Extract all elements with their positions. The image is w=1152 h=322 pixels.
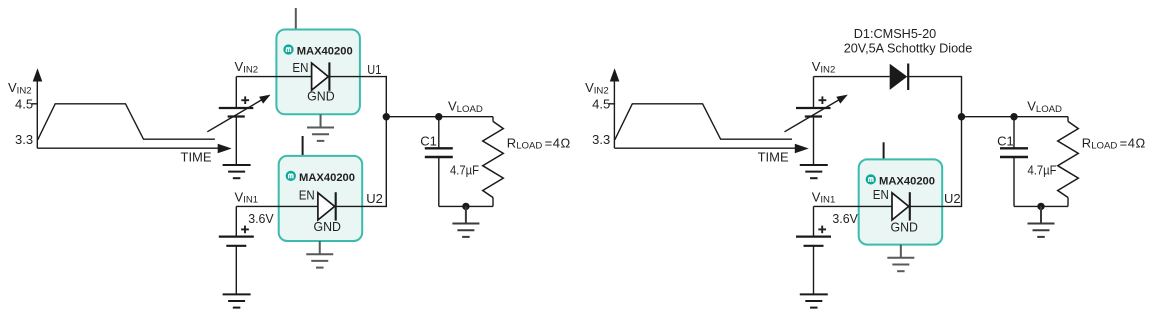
left graph 4.5 tick	[32, 103, 38, 105]
U2-left body	[279, 156, 363, 241]
U2-right through wire	[814, 205, 962, 207]
svg-text:MAX40200: MAX40200	[299, 172, 355, 184]
svg-text:TIME: TIME	[181, 149, 212, 164]
right graph waveform	[615, 104, 792, 140]
right VIN2 source battery plates	[796, 108, 831, 117]
left bus wire	[385, 76, 387, 207]
left VIN1 source plus sign	[241, 226, 249, 234]
left out bottom rail	[439, 205, 493, 207]
svg-text:U2: U2	[944, 191, 961, 206]
svg-text:U1: U1	[367, 62, 381, 77]
right VIN2 source variable arrow	[785, 95, 848, 132]
left VIN2 source ground	[223, 164, 251, 166]
svg-text:4.7µF: 4.7µF	[450, 162, 479, 177]
right VIN1 source battery plates	[796, 237, 831, 246]
right graph y-axis	[610, 68, 620, 148]
svg-text:C1: C1	[420, 134, 437, 149]
right VIN2 source wire top	[813, 77, 815, 108]
svg-text:3.6V: 3.6V	[832, 211, 858, 226]
left graph y-axis	[33, 68, 43, 148]
right graph x-axis	[614, 144, 808, 154]
U1 EN stub wire	[295, 8, 297, 31]
right out wire VLOAD rail	[962, 116, 1069, 118]
wire D1 to bus corner	[907, 77, 961, 117]
svg-text:20V,5A Schottky Diode: 20V,5A Schottky Diode	[844, 41, 973, 55]
U2-left ground symbol	[319, 241, 321, 254]
svg-text:RLOAD=4Ω: RLOAD=4Ω	[507, 135, 571, 151]
left out junction dot cap	[435, 113, 442, 120]
svg-text:U2: U2	[366, 191, 383, 206]
left out ground	[465, 206, 467, 223]
left graph x-axis	[37, 144, 231, 154]
U2-left EN stub wire	[302, 136, 304, 157]
right VIN1 source wire bottom	[813, 246, 815, 295]
U2-right EN stub wire	[883, 142, 885, 160]
left VIN2 source variable arrow	[207, 95, 270, 132]
left out capacitor C1 wires	[438, 117, 440, 207]
right out capacitor C1 plates	[1000, 148, 1028, 157]
left VIN1 source ground	[223, 293, 251, 295]
svg-text:4.5: 4.5	[592, 97, 610, 112]
svg-text:GND: GND	[890, 220, 918, 235]
left out junction dot bottom	[462, 203, 469, 210]
right out resistor RLOAD	[1058, 117, 1079, 207]
U2-right maxim logo	[866, 174, 876, 184]
left VIN2 source battery plates	[219, 108, 254, 117]
U2-left internal diode	[318, 192, 336, 220]
left VIN1 source battery plates	[219, 237, 254, 246]
svg-text:C1: C1	[997, 134, 1014, 149]
U1 maxim logo	[283, 44, 293, 54]
svg-text:VIN2: VIN2	[585, 80, 609, 96]
U2-right ground symbol	[900, 245, 902, 258]
U1 internal diode	[312, 62, 330, 90]
left VIN2 source wire bottom	[235, 117, 237, 166]
svg-text:VIN1: VIN1	[812, 189, 836, 205]
left VIN2 source wire top	[235, 77, 237, 108]
right VIN1 source wire top	[813, 206, 815, 236]
right VIN2 source plus sign	[819, 96, 827, 104]
svg-text:VIN2: VIN2	[235, 59, 259, 75]
svg-text:VIN2: VIN2	[812, 59, 836, 75]
svg-text:GND: GND	[307, 89, 335, 104]
U2-right internal diode	[892, 192, 910, 220]
right bus wire lower	[961, 117, 963, 207]
right graph 4.5 tick	[609, 103, 615, 105]
right VIN1 source ground	[800, 293, 828, 295]
left graph waveform	[38, 104, 215, 140]
svg-text:EN: EN	[292, 60, 308, 75]
left VIN1 source wire bottom	[235, 246, 237, 295]
svg-text:MAX40200: MAX40200	[879, 175, 935, 187]
svg-text:VLOAD: VLOAD	[1027, 99, 1062, 115]
svg-text:4.7µF: 4.7µF	[1028, 162, 1057, 177]
left VIN1 source wire top	[235, 206, 237, 236]
svg-text:3.3: 3.3	[592, 132, 610, 147]
svg-text:TIME: TIME	[758, 149, 789, 164]
U1 ground symbol	[320, 114, 322, 127]
right out bottom rail	[1014, 205, 1068, 207]
U1 through wire	[236, 76, 386, 78]
svg-text:3.3: 3.3	[15, 132, 33, 147]
left VIN2 source plus sign	[241, 96, 249, 104]
svg-text:3.6V: 3.6V	[248, 211, 274, 226]
right out capacitor C1 wires	[1013, 117, 1015, 207]
right VIN2 source ground	[800, 164, 828, 166]
left out capacitor C1 plates	[425, 148, 453, 157]
svg-text:4.5: 4.5	[15, 97, 33, 112]
right out junction dot cap	[1010, 113, 1017, 120]
diode D1 CMSH5-20	[890, 64, 909, 91]
U2-left through wire	[236, 205, 386, 207]
svg-text:VLOAD: VLOAD	[448, 99, 483, 115]
svg-text:RLOAD=4Ω: RLOAD=4Ω	[1082, 135, 1146, 151]
right VIN1 source plus sign	[818, 226, 826, 234]
wire VIN2 to diode D1	[814, 76, 890, 78]
svg-text:MAX40200: MAX40200	[297, 45, 353, 57]
svg-text:VIN1: VIN1	[235, 189, 259, 205]
svg-text:VIN2: VIN2	[8, 80, 32, 96]
svg-text:EN: EN	[873, 187, 889, 202]
right VIN2 source wire bottom	[813, 117, 815, 166]
right out junction dot bus	[958, 113, 965, 120]
U2-right body	[859, 159, 943, 244]
svg-text:EN: EN	[299, 188, 315, 203]
right out ground	[1040, 206, 1042, 223]
U2-left maxim logo	[286, 171, 296, 181]
left out resistor RLOAD	[483, 117, 504, 207]
svg-text:D1:CMSH5-20: D1:CMSH5-20	[854, 27, 937, 41]
U1 body	[276, 30, 360, 115]
right out junction dot bottom	[1037, 203, 1044, 210]
left out junction dot bus	[383, 113, 390, 120]
svg-text:GND: GND	[313, 219, 341, 234]
left out wire VLOAD rail	[386, 116, 493, 118]
